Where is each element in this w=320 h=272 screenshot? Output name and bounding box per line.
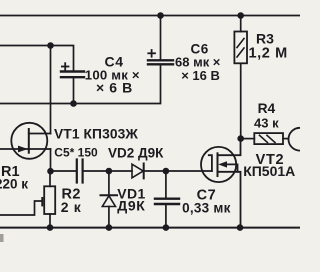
wire top supply rail	[0, 15, 300, 17]
svg-text:× 6 В: × 6 В	[96, 80, 133, 96]
plus sign C6	[148, 50, 155, 57]
plus sign C4	[62, 63, 69, 70]
capacitor C7	[165, 171, 167, 198]
substrate arrow	[218, 161, 227, 167]
svg-text:220 к: 220 к	[0, 177, 28, 192]
node R3 top	[237, 12, 244, 19]
wire C6 top lead	[160, 16, 162, 60]
trimmer tap bar R2	[41, 198, 43, 205]
capacitor C5	[77, 160, 83, 183]
node C4 bottom	[70, 100, 77, 107]
wire third rail to C6 bottom	[0, 65, 161, 103]
wire to C5	[51, 170, 77, 172]
svg-text:Д9К: Д9К	[117, 198, 145, 214]
svg-text:КП501А: КП501А	[243, 163, 295, 179]
svg-text:C5* 150: C5* 150	[54, 145, 98, 159]
wire bottom ground rail	[0, 227, 300, 229]
capacitor C6	[148, 60, 173, 64]
node C7	[163, 168, 170, 175]
wire C4 bottom lead	[73, 78, 75, 103]
svg-text:× 16 В: × 16 В	[181, 68, 220, 83]
svg-text:VD2 Д9К: VD2 Д9К	[108, 146, 164, 161]
node VD1 bottom	[106, 224, 113, 231]
diode VD2	[132, 164, 143, 178]
svg-text:R3: R3	[256, 31, 274, 47]
resistor R3	[240, 16, 242, 32]
wire second rail to C4	[0, 46, 74, 71]
resistor R4	[241, 138, 255, 140]
transistor VT1	[0, 123, 51, 159]
channel segments	[217, 153, 219, 176]
svg-text:2 к: 2 к	[61, 199, 82, 215]
drain lead	[218, 139, 241, 156]
node R2 bottom	[47, 224, 54, 231]
resistor R2 with trimmer tap from R1	[0, 201, 41, 215]
wire VT1 source down	[50, 149, 52, 171]
svg-text:0,33 мк: 0,33 мк	[182, 201, 231, 216]
node VT2 source bottom	[237, 224, 244, 231]
source lead	[218, 172, 241, 228]
connector terminal circle	[289, 128, 312, 151]
svg-text:VT1 КП303Ж: VT1 КП303Ж	[54, 126, 138, 141]
node C6 top	[157, 12, 164, 19]
node VT1 drain branch	[47, 42, 54, 49]
gate electrode	[209, 155, 212, 171]
wire VT1 drain vertical	[50, 46, 52, 134]
node R4 / VT2 drain	[237, 135, 244, 142]
svg-text:43 к: 43 к	[254, 116, 279, 131]
diode VD1	[108, 171, 110, 195]
svg-text:1,2 М: 1,2 М	[249, 46, 288, 62]
node C7 bottom	[163, 224, 170, 231]
wire C5 to VD2	[83, 170, 132, 172]
node VD1	[106, 168, 113, 175]
node source / C5 / R2	[47, 168, 54, 175]
scan artifact bottom-left	[0, 234, 4, 242]
svg-text:R4: R4	[258, 101, 276, 116]
wire VD2 to VT2 gate	[144, 170, 212, 172]
capacitor C4	[61, 72, 84, 78]
transistor VT2	[201, 139, 241, 228]
